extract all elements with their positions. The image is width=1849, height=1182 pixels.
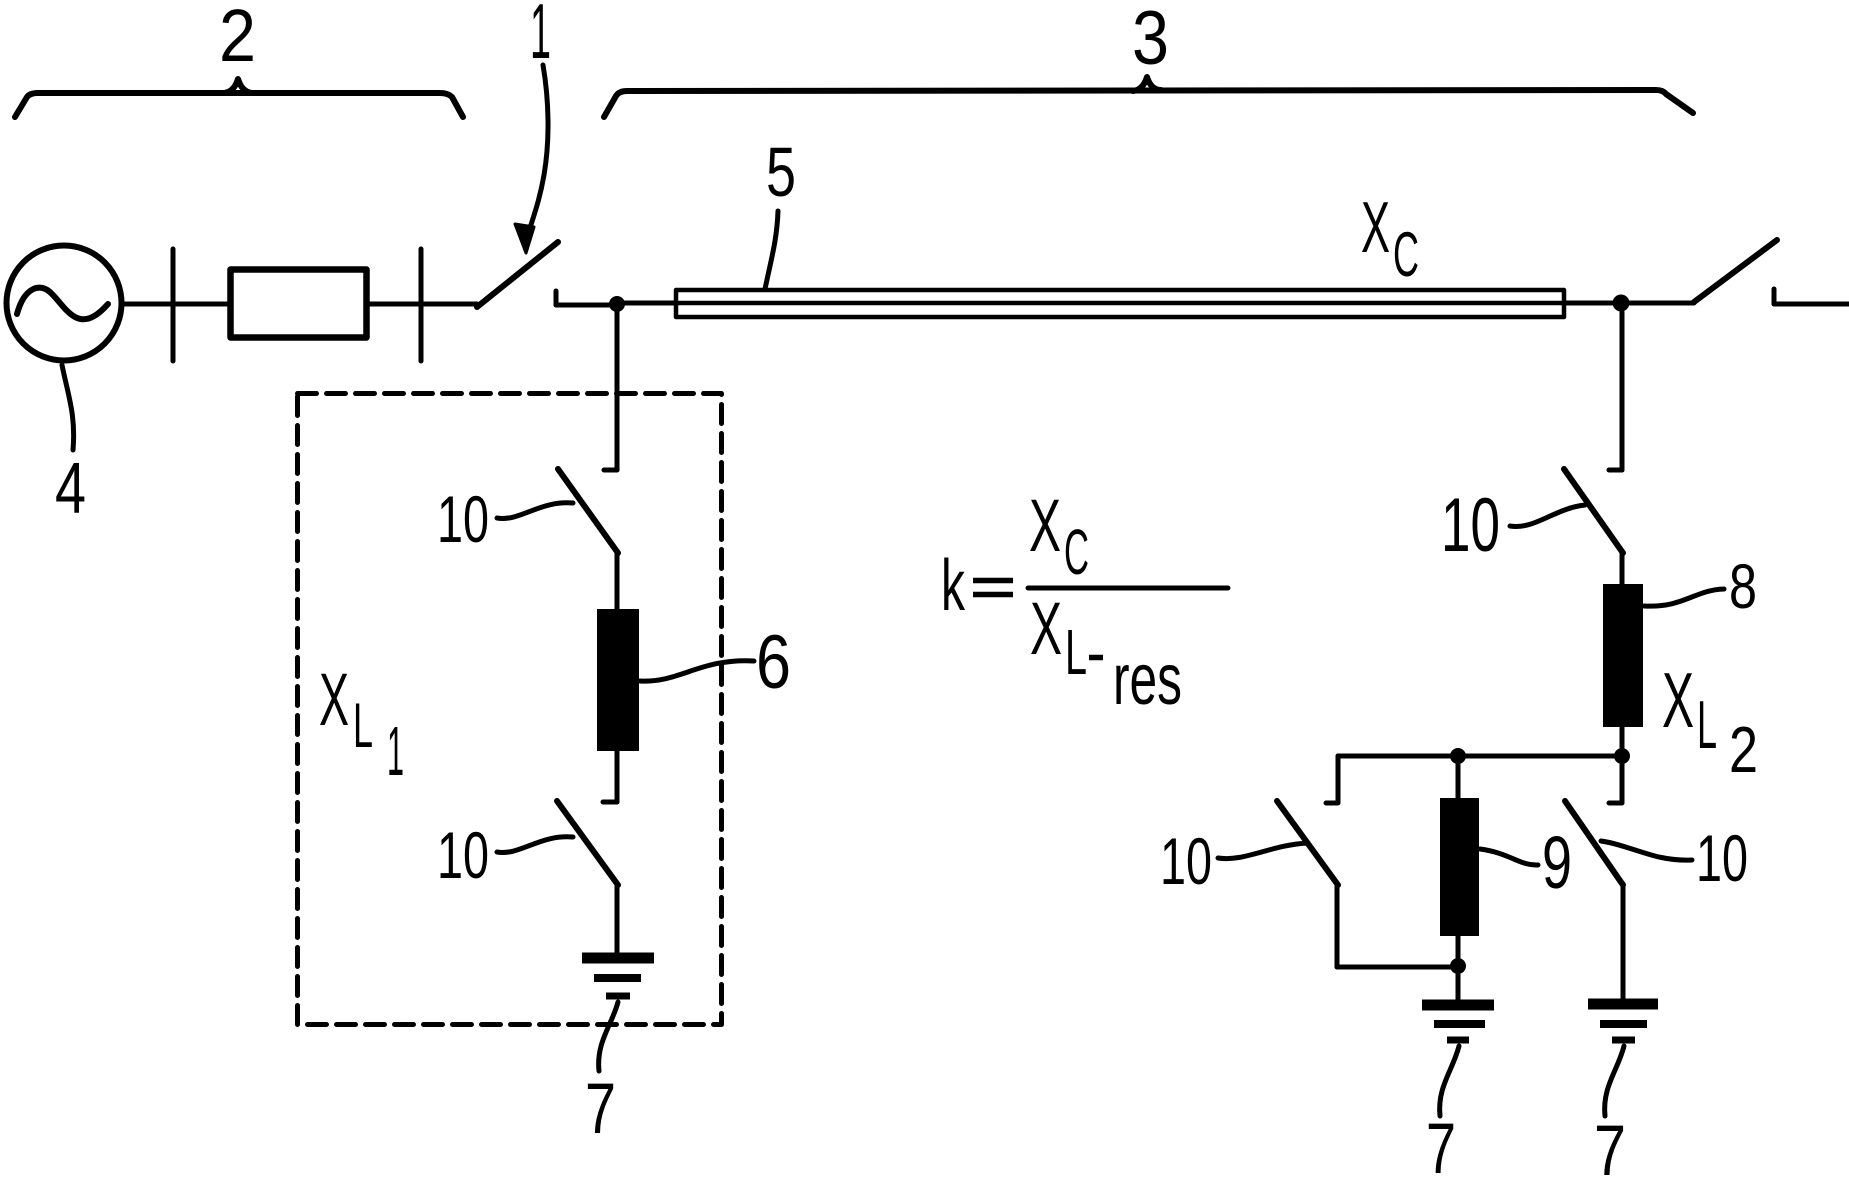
svg-text:1: 1 [530, 0, 551, 75]
wire generator to left bus bar [123, 302, 173, 307]
right line switch blade [1694, 240, 1777, 302]
svg-text:6: 6 [756, 620, 791, 705]
switch 10a blade [558, 469, 618, 553]
reactor 8 body [1603, 584, 1643, 727]
svg-text:X: X [1030, 587, 1062, 670]
switch 10c blade [1564, 469, 1623, 553]
svg-text:7: 7 [585, 1070, 616, 1149]
svg-text:2: 2 [219, 0, 256, 77]
left bus bar [171, 249, 176, 361]
switch 10d blade [1277, 801, 1338, 885]
node at line entry [609, 296, 625, 312]
wire node to series capacitor [624, 301, 676, 306]
svg-text:5: 5 [766, 133, 796, 211]
brace 3 peak [1133, 77, 1161, 91]
generator sine wave [17, 288, 108, 320]
svg-text:X: X [1662, 656, 1694, 744]
wire to right edge [1774, 302, 1849, 307]
svg-text:X: X [1029, 484, 1061, 567]
brace 3 (transmission line section) [604, 90, 1693, 117]
bypass fixed contact drop [1326, 756, 1338, 803]
wire reactor 8 to node [1620, 727, 1625, 760]
wire node to right switch [1630, 301, 1694, 306]
wire blade to reactor 6 [615, 552, 620, 609]
ground B [1422, 1000, 1494, 1011]
wire reactor 9 to ground B [1456, 936, 1461, 1000]
series capacitor 5 body [676, 290, 1564, 317]
svg-text:10: 10 [1160, 824, 1212, 898]
right switch fixed contact [1772, 289, 1777, 304]
node above reactor 9 [1450, 748, 1466, 764]
svg-text:L: L [1697, 687, 1717, 763]
leader 10d to blade [1218, 843, 1308, 859]
breaker 1 fixed contact [554, 291, 559, 305]
circuit breaker 1 blade [477, 242, 558, 307]
reactor 6 body [597, 609, 639, 751]
svg-text:9: 9 [1542, 821, 1572, 904]
leader 10a to blade [497, 503, 573, 519]
wire blade to reactor 8 [1620, 552, 1625, 584]
switch 10c fixed contact foot [1609, 468, 1622, 473]
wire switch to ground A [615, 884, 620, 953]
leader 6 [640, 661, 754, 681]
leader 9 [1480, 849, 1538, 865]
right bus bar [419, 249, 424, 361]
dashed enclosure XL1 [298, 394, 722, 1025]
svg-text:7: 7 [1594, 1112, 1626, 1182]
transformer / impedance box [231, 270, 367, 338]
leader 7c [1605, 1046, 1624, 1116]
wire bus bar to breaker 1 [421, 302, 477, 307]
svg-text:4: 4 [55, 449, 86, 529]
wire reactor to switch 10b [615, 751, 620, 802]
svg-text:C: C [1393, 220, 1419, 290]
wire node to reactor 9 [1456, 760, 1461, 798]
leader 10b to blade [497, 837, 573, 853]
ground A [582, 953, 654, 964]
switch 10e fixed contact drop [1609, 764, 1622, 803]
wire capacitor to right node [1564, 301, 1612, 306]
switch 10a fixed contact foot [604, 468, 617, 473]
svg-text:L: L [1065, 616, 1087, 688]
leader arrow from label 1 to circuit breaker [530, 65, 548, 228]
brace 2 (network section) [15, 93, 463, 117]
wire node down to switch 10a [615, 312, 620, 470]
leader from 5 to capacitor [765, 211, 778, 289]
svg-text:2: 2 [1729, 713, 1758, 786]
horizontal tie wire [1338, 754, 1622, 759]
node at line exit [1613, 295, 1630, 312]
svg-text:7: 7 [1426, 1110, 1456, 1182]
leader 8 [1644, 589, 1724, 606]
svg-text:1: 1 [387, 712, 404, 790]
svg-text:X: X [319, 658, 349, 741]
node below reactor 9 [1450, 958, 1466, 974]
ground C [1588, 999, 1658, 1010]
leader 10c to blade [1510, 505, 1585, 526]
svg-text:res: res [1113, 640, 1182, 720]
switch 10b fixed contact foot [603, 800, 617, 805]
wire right node down to switch 10c [1620, 312, 1625, 470]
wire transformer to right bus bar [370, 302, 421, 307]
svg-text:L: L [353, 691, 373, 761]
svg-text:10: 10 [437, 482, 489, 556]
leader from generator to label 4 [62, 365, 74, 450]
svg-text:k: k [941, 546, 966, 626]
svg-text:10: 10 [437, 818, 489, 892]
fraction bar [1028, 586, 1228, 591]
leader 7b [1440, 1046, 1459, 1116]
reactor 9 body [1440, 798, 1479, 936]
wire contact to node [556, 303, 612, 308]
svg-text:C: C [1064, 516, 1089, 588]
brace 2 peak [224, 79, 252, 93]
wire to bottom node [1337, 965, 1458, 970]
leader 10e to blade [1601, 841, 1692, 860]
svg-text:X: X [1361, 188, 1390, 268]
generator 4 circle [7, 246, 122, 361]
svg-text:3: 3 [1132, 0, 1169, 81]
series capacitor mid line [676, 301, 1564, 306]
node under reactor 8 [1614, 748, 1630, 764]
wire bus bar to transformer [173, 302, 227, 307]
leader 7a [599, 1002, 618, 1071]
wire blade down [1335, 884, 1340, 967]
svg-text:10: 10 [1441, 483, 1500, 568]
switch 10e blade [1565, 801, 1623, 885]
svg-text:10: 10 [1696, 821, 1748, 895]
wire switch 10e to ground C [1621, 884, 1626, 999]
svg-text:8: 8 [1729, 552, 1757, 622]
switch 10b blade [557, 801, 618, 885]
